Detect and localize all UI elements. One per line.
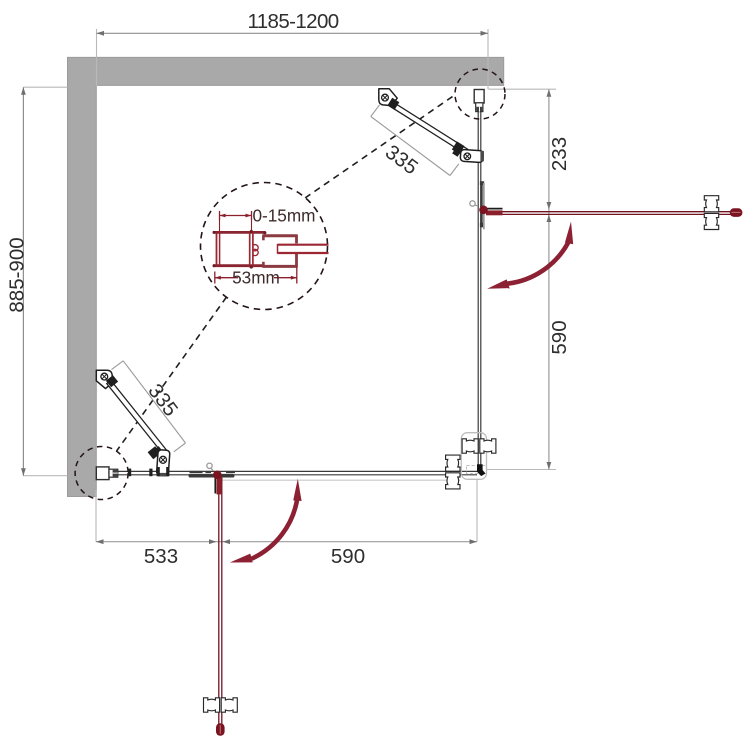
svg-text:885-900: 885-900 bbox=[6, 237, 29, 312]
svg-text:233: 233 bbox=[548, 137, 571, 171]
strut top-right: hinge knuckle bbox=[387, 98, 399, 110]
red bottom door (open) bbox=[213, 471, 225, 736]
dimension 335 (bottom-left strut) bbox=[112, 361, 186, 452]
glass clamp ticks on bottom panel bbox=[128, 469, 153, 477]
strut bottom-left: glass bracket bbox=[148, 446, 170, 476]
red right door (open) bbox=[479, 206, 742, 217]
dashed pointer line to bottom-left bracket bbox=[117, 297, 227, 451]
dimension 233 / 590 (right) bbox=[487, 89, 571, 469]
svg-text:590: 590 bbox=[548, 320, 571, 354]
knob on open bottom door bbox=[204, 698, 238, 712]
knob on open right door bbox=[704, 196, 718, 230]
strut bottom-left: bar bbox=[107, 380, 167, 454]
dimension 533 / 590 (bottom) bbox=[96, 480, 477, 569]
detail circle bbox=[201, 183, 328, 310]
svg-text:533: 533 bbox=[144, 545, 178, 568]
dashed circle bottom-left bbox=[75, 447, 128, 500]
bottom glass panel (fixed + closed door) bbox=[118, 471, 477, 480]
dimension 1185-1200 (top) bbox=[97, 10, 489, 89]
detail: glass (red) bbox=[278, 244, 329, 254]
svg-text:53mm: 53mm bbox=[232, 268, 280, 288]
hinge profile on right glass bbox=[470, 181, 485, 229]
detail: door clamp profile bbox=[262, 235, 297, 267]
knob on closed bottom door (corner) bbox=[446, 455, 460, 489]
hinge profile on bottom glass bbox=[189, 463, 236, 477]
swing arrow bottom door bbox=[230, 479, 302, 563]
detail: dimension 53mm bbox=[215, 267, 297, 288]
strut top-right: bar bbox=[389, 101, 468, 153]
swing arrow right door bbox=[487, 222, 573, 289]
detail: wall profile (red) bbox=[213, 231, 267, 267]
right glass panel (fixed + closed door) bbox=[478, 112, 481, 466]
detail: sliding profile (red) bbox=[250, 230, 258, 269]
wall bracket top-right bbox=[474, 90, 484, 112]
strut bottom-left: wall plate bbox=[96, 370, 113, 388]
dimension 335 (top-right strut) bbox=[371, 105, 459, 179]
dashed circle top-right bbox=[455, 69, 505, 119]
strut top-right: glass bracket bbox=[452, 141, 484, 162]
svg-text:590: 590 bbox=[331, 545, 365, 568]
wall L-shape bbox=[68, 57, 504, 496]
svg-text:0-15mm: 0-15mm bbox=[252, 206, 315, 226]
detail: dimension 0-15mm bbox=[220, 206, 316, 233]
corner unit (bottom-right) bbox=[461, 433, 486, 480]
dashed pointer line to top-right bracket bbox=[305, 96, 454, 199]
knob on closed right door (corner) bbox=[462, 439, 496, 453]
wall bracket bottom-left bbox=[96, 467, 118, 480]
strut bottom-left: hinge knuckle bbox=[106, 375, 118, 387]
svg-text:1185-1200: 1185-1200 bbox=[247, 10, 338, 33]
strut top-right: wall plate bbox=[379, 89, 397, 106]
dimension 885-900 (left) bbox=[6, 87, 68, 476]
